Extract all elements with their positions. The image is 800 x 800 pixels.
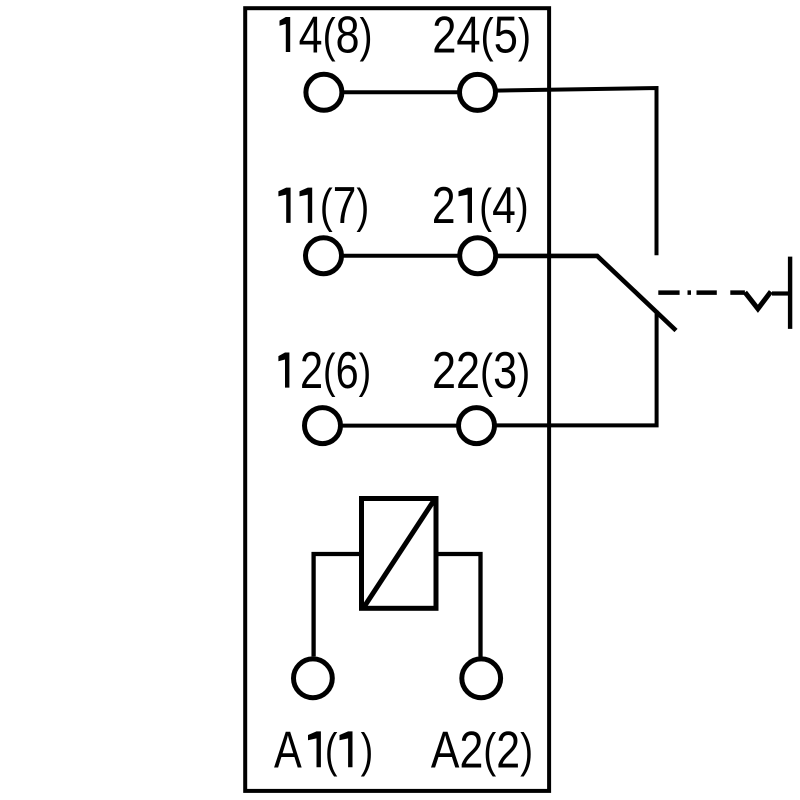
wire 14-24 xyxy=(344,90,458,94)
relay body outline xyxy=(245,8,549,791)
actuator linkage dash 1 xyxy=(658,290,679,295)
contact terminal 14 xyxy=(306,74,342,110)
contact terminal 24 xyxy=(460,74,496,110)
svg-text:24(5): 24(5) xyxy=(432,5,531,63)
svg-text:22(3): 22(3) xyxy=(432,341,530,399)
contact terminal 22 xyxy=(459,408,495,444)
coil terminal A1 xyxy=(294,659,333,698)
digit 1 of 12(6) (drawn glyph) xyxy=(278,353,289,388)
svg-text:A1(1): A1(1) xyxy=(274,721,373,779)
coil K1 diagonal xyxy=(364,499,435,608)
contact terminal 11 xyxy=(306,238,342,274)
contact terminal 12 xyxy=(305,408,341,444)
coil K1 box xyxy=(362,499,437,609)
wire 22 to blade contact xyxy=(495,311,657,426)
contact terminal 21 xyxy=(460,238,496,274)
wire 11-21 xyxy=(344,254,459,258)
first digit 1 of 11(7) (drawn glyph) xyxy=(278,188,290,223)
manual actuator spring symbol xyxy=(745,292,771,309)
wire coil to A1 xyxy=(314,554,360,656)
actuator link to push bar xyxy=(772,291,788,295)
actuator push bar xyxy=(788,257,792,329)
wire 12-22 xyxy=(343,424,457,428)
svg-text:A2(2): A2(2) xyxy=(431,721,533,779)
actuator linkage dash 3 xyxy=(697,290,717,295)
second digit 1 of A1(1) (drawn glyph) xyxy=(340,731,353,767)
wire coil to A2 xyxy=(438,554,481,657)
coil terminal A2 xyxy=(462,659,501,698)
digit 1 of 21(4) (drawn glyph) xyxy=(459,188,473,223)
first digit 1 of A1(1) (drawn glyph) xyxy=(308,731,321,767)
digit 1 of 14(8) (drawn glyph) xyxy=(280,17,291,52)
actuator linkage dash 4 xyxy=(730,290,745,295)
svg-text:12(6): 12(6) xyxy=(277,341,371,399)
actuator linkage dash 2 xyxy=(688,290,692,295)
wire 21 to blade pivot and changeover blade xyxy=(496,256,676,331)
second digit 1 of 11(7) (drawn glyph) xyxy=(300,188,313,223)
svg-text:21(4): 21(4) xyxy=(432,176,529,234)
wire 24 to NO contact point xyxy=(496,88,657,255)
